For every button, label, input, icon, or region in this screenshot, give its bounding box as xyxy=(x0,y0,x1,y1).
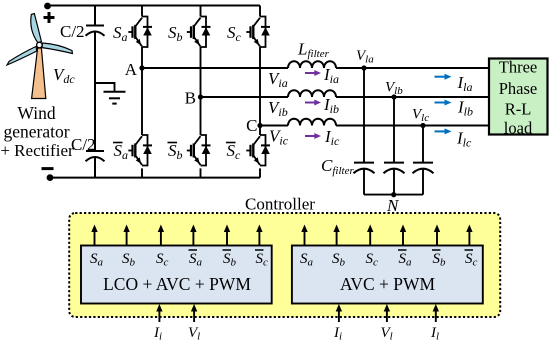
controller block AVC+PWM xyxy=(292,246,483,304)
filter capacitor branch b xyxy=(393,97,395,195)
node Vlc dot xyxy=(420,123,425,128)
wind turbine tower xyxy=(32,48,46,99)
switch Sc-bar (IGBT + diode) xyxy=(246,135,270,166)
node N dot xyxy=(391,192,396,197)
phase A wire to inductor xyxy=(142,67,288,69)
switch Sa (IGBT + diode) xyxy=(128,17,152,48)
svg-text:C/2: C/2 xyxy=(60,22,85,41)
svg-text:Three: Three xyxy=(499,58,537,77)
svg-text:Wind: Wind xyxy=(17,103,55,123)
current arrow Iib xyxy=(305,100,321,106)
negative terminal dot xyxy=(47,174,54,181)
load current arrow Ilc xyxy=(435,128,452,134)
node A dot xyxy=(139,65,144,70)
wind turbine hub xyxy=(37,42,43,48)
phase A wire to load xyxy=(336,67,489,69)
node C dot xyxy=(257,123,262,128)
svg-text:load: load xyxy=(504,119,533,138)
leg c wire xyxy=(259,6,261,178)
load current arrow Ilb xyxy=(435,100,452,106)
wind turbine blade left xyxy=(7,47,37,66)
svg-text:A: A xyxy=(125,60,138,79)
inductor Lc xyxy=(288,119,336,126)
phase B wire to inductor xyxy=(201,96,289,98)
svg-text:generator: generator xyxy=(3,122,69,142)
output arrows right block xyxy=(301,225,307,246)
current arrow Iia xyxy=(305,70,321,76)
plus label xyxy=(44,12,55,23)
leg a wire xyxy=(141,6,143,178)
svg-text:B: B xyxy=(185,89,196,108)
positive terminal dot xyxy=(44,3,51,10)
current arrow Iic xyxy=(305,133,321,139)
svg-text:Phase: Phase xyxy=(499,79,538,98)
input arrow Vl right xyxy=(384,304,390,322)
svg-text:C: C xyxy=(246,116,257,135)
capacitor C/2 bottom xyxy=(86,151,105,161)
three phase R-L load box xyxy=(489,59,548,135)
phase C wire to load xyxy=(336,125,489,127)
phase C wire to inductor xyxy=(260,125,288,127)
inductor La xyxy=(288,61,336,68)
DC bus wire xyxy=(94,6,96,178)
switch Sa-bar (IGBT + diode) xyxy=(128,135,152,166)
node B dot xyxy=(198,94,203,99)
leg b wire xyxy=(200,6,202,178)
bottom DC rail xyxy=(50,177,260,179)
switch Sb-bar (IGBT + diode) xyxy=(187,135,211,166)
filter capacitor branch c xyxy=(422,126,424,195)
filter capacitor branch a xyxy=(363,68,365,195)
output arrows left block xyxy=(91,225,97,246)
phase B wire to load xyxy=(336,96,489,98)
minus label xyxy=(42,167,54,170)
neutral bus wire xyxy=(364,194,423,196)
input arrow Ii right xyxy=(336,304,342,322)
capacitor C/2 top xyxy=(86,26,105,36)
inductor Lb xyxy=(288,90,336,97)
wind turbine blade up xyxy=(31,14,42,44)
svg-text:Controller: Controller xyxy=(245,195,315,214)
node Vlb dot xyxy=(391,94,396,99)
switch Sc (IGBT + diode) xyxy=(246,17,270,48)
switch Sb (IGBT + diode) xyxy=(187,17,211,48)
svg-text:R-L: R-L xyxy=(505,100,532,119)
top DC rail xyxy=(48,5,261,7)
controller block LCO+AVC+PWM xyxy=(81,246,272,304)
svg-text:AVC + PWM: AVC + PWM xyxy=(340,274,436,294)
svg-text:C/2: C/2 xyxy=(71,135,96,154)
input arrow Ii left xyxy=(156,304,162,322)
ground xyxy=(95,83,126,104)
load current arrow Ila xyxy=(435,74,452,80)
input arrow Vl left xyxy=(191,304,197,322)
svg-text:+ Rectifier: + Rectifier xyxy=(0,141,74,160)
wind turbine blade right xyxy=(42,43,72,54)
node Vla dot xyxy=(361,65,366,70)
svg-text:LCO + AVC + PWM: LCO + AVC + PWM xyxy=(103,274,251,294)
input arrow Il right xyxy=(433,304,439,322)
controller outer box xyxy=(69,213,500,317)
